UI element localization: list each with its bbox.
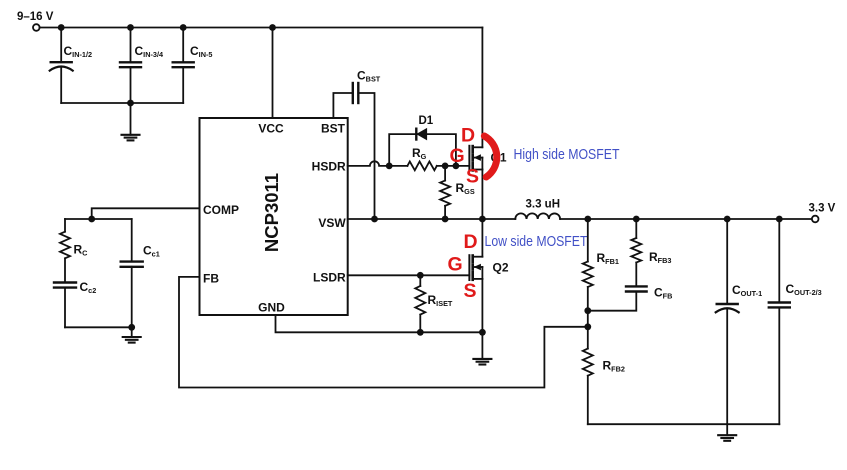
- resistor RC: [60, 219, 70, 282]
- junction input rail / CIN-1/2: [58, 24, 65, 31]
- svg-text:G: G: [450, 145, 465, 167]
- ground power stage: [473, 332, 491, 364]
- junction output / RFB3: [633, 216, 640, 223]
- capacitor CIN-1/2: [50, 28, 73, 104]
- svg-text:G: G: [448, 253, 463, 275]
- junction input rail / VCC: [269, 24, 276, 31]
- junction VSW / RGS: [442, 216, 449, 223]
- svg-text:NCP3011: NCP3011: [261, 173, 282, 252]
- junction RFB1 bottom / CFB return: [584, 307, 591, 314]
- junction input rail / CIN-3/4: [127, 24, 134, 31]
- svg-text:HSDR: HSDR: [312, 159, 346, 173]
- node VOUT 3.3V terminal: [809, 203, 836, 223]
- transistor Q2 low-side MOSFET symbol: [469, 255, 482, 280]
- wire Q2 source down to ground trace: [481, 279, 483, 332]
- junction output / COUT-2/3: [776, 216, 783, 223]
- wire VSW from IC to inductor: [348, 218, 516, 220]
- ground output: [718, 424, 736, 441]
- wire compensation bottom rail: [65, 326, 132, 328]
- wire RG to Q1 gate: [437, 165, 470, 167]
- svg-text:CFB: CFB: [654, 286, 672, 301]
- svg-text:CIN-5: CIN-5: [190, 44, 212, 59]
- svg-text:9–16 V: 9–16 V: [17, 11, 54, 23]
- junction input bottom rail / ground: [127, 100, 134, 107]
- svg-text:FB: FB: [203, 272, 219, 286]
- svg-text:VCC: VCC: [258, 122, 284, 136]
- svg-text:D: D: [461, 125, 475, 147]
- op-amp U1 NCP3011 controller IC body: [200, 118, 348, 315]
- wire GND pin trace: [276, 315, 483, 332]
- capacitor CC2: [54, 283, 76, 328]
- svg-text:CBST: CBST: [357, 69, 381, 84]
- svg-text:COUT-2/3: COUT-2/3: [786, 282, 822, 297]
- capacitor CFB: [588, 286, 647, 310]
- svg-text:S: S: [466, 165, 479, 187]
- wire Q1 source to VSW: [481, 170, 483, 220]
- junction VSW / CBST: [371, 216, 378, 223]
- svg-text:3.3 uH: 3.3 uH: [526, 199, 561, 211]
- svg-text:CIN-3/4: CIN-3/4: [135, 44, 164, 59]
- svg-text:BST: BST: [321, 122, 346, 136]
- svg-text:Cc1: Cc1: [143, 244, 160, 259]
- junction output / COUT-1: [724, 216, 731, 223]
- svg-text:S: S: [464, 280, 477, 302]
- wire Q2 drain from VSW: [481, 219, 483, 257]
- junction VSW / Q1 source Q2 drain: [479, 216, 486, 223]
- junction RG / RGS: [442, 163, 449, 170]
- junction gnd trace / RISET: [417, 329, 424, 336]
- wire COMP pin to compensation network: [92, 208, 200, 219]
- diode D1: [416, 129, 426, 140]
- svg-text:COUT-1: COUT-1: [732, 283, 762, 298]
- svg-text:Low side MOSFET: Low side MOSFET: [485, 233, 588, 250]
- svg-text:Q2: Q2: [493, 260, 509, 274]
- wire input top rail: [40, 27, 483, 29]
- ground compensation: [123, 327, 141, 342]
- svg-text:RFB3: RFB3: [649, 250, 671, 265]
- capacitor COUT-2/3: [769, 219, 790, 424]
- svg-text:RFB1: RFB1: [597, 251, 619, 266]
- svg-text:D1: D1: [419, 115, 434, 127]
- resistor RFB1: [583, 219, 593, 349]
- wire CBST to VSW line: [358, 93, 374, 219]
- svg-text:RFB2: RFB2: [603, 359, 625, 374]
- capacitor CIN-3/4: [120, 28, 141, 104]
- capacitor CC1: [121, 219, 143, 327]
- transistor Q1 high-side MOSFET symbol: [469, 146, 482, 171]
- wire input caps bottom rail: [61, 102, 183, 104]
- resistor RGS: [440, 166, 450, 219]
- wire BST pin up to CBST: [333, 93, 352, 118]
- resistor RG: [407, 162, 436, 171]
- junction comp rail: [88, 216, 95, 223]
- wire FB trace: [179, 277, 588, 388]
- resistor RFB2: [583, 349, 593, 425]
- svg-text:GND: GND: [258, 300, 285, 314]
- node VIN 9-16V input terminal: [17, 11, 54, 31]
- svg-text:Cc2: Cc2: [80, 280, 97, 295]
- red highlight arc on Q1: [484, 136, 497, 177]
- junction LSDR / RISET: [417, 272, 424, 279]
- svg-text:COMP: COMP: [203, 203, 239, 217]
- wire LSDR to Q2 gate: [348, 274, 470, 276]
- junction comp bottom rail / ground: [128, 324, 135, 331]
- inductor L1 3.3uH: [515, 213, 560, 219]
- svg-text:VSW: VSW: [318, 216, 346, 230]
- junction gnd trace / Q2 source: [479, 329, 486, 336]
- junction gate / D1 return: [453, 163, 460, 170]
- svg-text:3.3 V: 3.3 V: [809, 203, 836, 215]
- ground input section: [122, 103, 140, 140]
- svg-text:CIN-1/2: CIN-1/2: [64, 44, 93, 59]
- junction input rail / CIN-5: [180, 24, 187, 31]
- junction output / RFB1: [584, 216, 591, 223]
- wire compensation top rail: [65, 218, 132, 220]
- wire Q1 drain feed from input rail: [481, 28, 483, 148]
- svg-text:D: D: [464, 231, 478, 253]
- capacitor COUT-1: [716, 219, 739, 424]
- svg-text:RISET: RISET: [428, 293, 453, 308]
- wire output ground rail: [588, 423, 780, 425]
- svg-text:RG: RG: [412, 146, 427, 161]
- capacitor CIN-5: [173, 28, 194, 104]
- wire D1 branch up: [389, 134, 456, 166]
- resistor RFB3: [631, 219, 641, 286]
- svg-text:High side MOSFET: High side MOSFET: [514, 146, 620, 163]
- junction HSDR / D1 branch: [386, 163, 393, 170]
- resistor RISET: [415, 275, 425, 332]
- svg-text:RC: RC: [74, 243, 89, 258]
- wire VCC pin to input rail: [272, 28, 274, 119]
- junction FB node: [584, 323, 591, 330]
- svg-text:LSDR: LSDR: [313, 271, 346, 285]
- capacitor CBST: [353, 83, 359, 103]
- wire output rail: [560, 218, 812, 220]
- wire HSDR with hop over BST line: [348, 161, 408, 166]
